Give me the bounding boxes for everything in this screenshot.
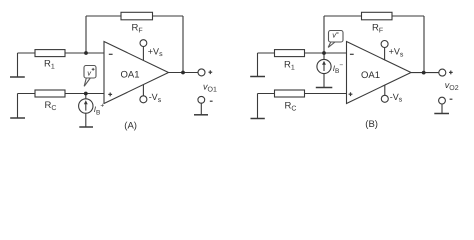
output plus sign	[209, 71, 213, 73]
svg-text:(A): (A)	[124, 121, 137, 132]
op-amp minus input marker	[350, 53, 354, 55]
callout v-	[328, 31, 343, 48]
wire feedback right vertical	[182, 16, 184, 73]
resistor RC	[35, 90, 65, 97]
supply +Vs terminal	[384, 48, 386, 61]
wire R1 to inverting input	[305, 52, 347, 54]
current source IB-	[323, 53, 325, 60]
output terminal -	[439, 97, 446, 104]
resistor R1	[275, 50, 305, 57]
node inverting input junction	[84, 51, 88, 55]
node non-inverting input junction	[84, 92, 88, 96]
output minus sign	[450, 98, 453, 100]
output terminal +	[198, 69, 205, 76]
ground	[17, 94, 19, 119]
supply -Vs terminal	[384, 85, 386, 95]
op-amp OA1	[104, 42, 169, 104]
callout v+	[84, 66, 96, 87]
wire feedback top	[86, 15, 183, 17]
supply +Vs terminal	[142, 47, 144, 61]
wire RC to non-inverting input	[65, 93, 104, 95]
wire RC to non-inverting input	[305, 93, 347, 95]
ground	[434, 113, 449, 115]
supply -Vs terminal	[142, 85, 144, 96]
svg-text:OA1: OA1	[121, 70, 140, 81]
op-amp plus input marker	[349, 93, 353, 95]
op-amp OA1	[347, 42, 412, 104]
wire feedback top	[324, 15, 424, 17]
resistor RC	[275, 90, 305, 97]
current source IB+	[85, 94, 87, 99]
svg-text:(B): (B)	[365, 119, 378, 130]
ground	[17, 53, 19, 77]
ground	[194, 114, 208, 116]
node inverting input junction	[322, 51, 326, 55]
ground	[316, 87, 333, 89]
wire ground to RC	[18, 93, 36, 95]
wire ground to RC	[258, 93, 275, 95]
wire output	[169, 72, 199, 74]
resistor RF	[121, 12, 153, 19]
resistor R1	[35, 50, 65, 57]
wire ground to R1	[258, 52, 275, 54]
ground	[257, 53, 259, 77]
ground	[257, 94, 259, 119]
output minus sign	[210, 100, 213, 102]
output terminal +	[439, 69, 446, 76]
wire ground to R1	[18, 52, 36, 54]
output terminal -	[198, 96, 205, 103]
wire R1 to inverting input	[65, 52, 104, 54]
resistor RF	[362, 12, 393, 19]
wire feedback right vertical	[423, 16, 425, 73]
wire output	[411, 72, 439, 74]
svg-text:OA1: OA1	[361, 70, 380, 81]
wire feedback left vertical	[323, 16, 325, 53]
op-amp minus input marker	[109, 53, 113, 55]
node output junction	[422, 71, 426, 75]
wire feedback left vertical	[85, 16, 87, 53]
output plus sign	[449, 71, 453, 73]
node output junction	[181, 71, 185, 75]
ground	[79, 126, 93, 128]
op-amp plus input marker	[108, 93, 112, 95]
